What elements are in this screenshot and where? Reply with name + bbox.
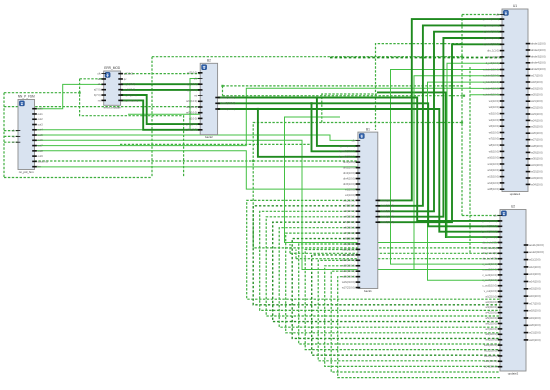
svg-text:w7(210:0): w7(210:0) (485, 327, 497, 331)
svg-text:w9(210:0): w9(210:0) (343, 242, 355, 246)
svg-text:w14(10:0): w14(10:0) (487, 181, 499, 185)
wire bus B1.hole3 to U1 (378, 32, 502, 212)
svg-text:back1: back1 (364, 289, 372, 293)
svg-text:w32(10:0): w32(10:0) (531, 170, 543, 174)
svg-text:len: len (38, 165, 42, 169)
svg-text:w16(210:0): w16(210:0) (342, 280, 355, 284)
wire dotted vertical x=222.5 (222, 86, 224, 96)
wire bold dashed net to U1 din_2 (330, 57, 502, 59)
wire staircase net 1 B1 to U2 (247, 200, 500, 299)
svg-text:a_hole5(10:0): a_hole5(10:0) (483, 42, 499, 46)
wire staircase net 6 B1 to U2 (279, 228, 500, 328)
svg-text:w28(10:0): w28(10:0) (487, 187, 499, 191)
module NN_P_FSM (A) (12, 95, 48, 174)
svg-text:hole1(10:0): hole1(10:0) (381, 198, 394, 202)
svg-text:w20(10:0): w20(10:0) (531, 93, 543, 97)
svg-text:ref2(10:0): ref2(10:0) (186, 105, 197, 109)
svg-text:w12(210:0): w12(210:0) (342, 258, 355, 262)
U2 left pin labels (481, 213, 498, 368)
svg-text:x(10:0): x(10:0) (189, 116, 197, 120)
svg-text:w19(10:0): w19(10:0) (529, 316, 541, 320)
svg-text:w5(10:0): w5(10:0) (489, 124, 499, 128)
svg-text:out6: out6 (38, 138, 44, 142)
svg-text:w2(210:0): w2(210:0) (343, 204, 355, 208)
wire bus B1.hole5 to U1 (378, 44, 502, 222)
svg-text:w27(10:0): w27(10:0) (531, 138, 543, 142)
U2 left pins (498, 215, 503, 367)
svg-text:w13(10:0): w13(10:0) (529, 272, 541, 276)
svg-text:w9(210:0): w9(210:0) (485, 338, 497, 342)
svg-text:w13(210:0): w13(210:0) (484, 359, 497, 363)
svg-text:w3(210:0): w3(210:0) (343, 209, 355, 213)
svg-text:w29(10:0): w29(10:0) (531, 150, 543, 154)
EM left pins (101, 73, 106, 101)
svg-text:w5(210:0): w5(210:0) (343, 220, 355, 224)
svg-text:B2: B2 (207, 59, 211, 63)
svg-text:d_out1(210:0): d_out1(210:0) (481, 219, 497, 223)
B2 left pins (198, 72, 203, 131)
svg-text:w12(210:0): w12(210:0) (484, 354, 497, 358)
wire staircase net 13 B1 to U2 (325, 266, 500, 367)
A left pin labels (12, 129, 16, 145)
wire dotted net into U2 din_hole2 (296, 250, 500, 259)
U2 right pin labels (529, 243, 544, 342)
svg-text:w14(210:0): w14(210:0) (342, 269, 355, 273)
svg-text:w30(10:0): w30(10:0) (531, 157, 543, 161)
wire bus B2.dout1 branch to B1 (317, 98, 358, 146)
svg-text:w17(10:0): w17(10:0) (531, 74, 543, 78)
svg-text:hole4(10:0): hole4(10:0) (381, 215, 394, 219)
wire staircase net 9 B1 to U2 (299, 244, 500, 344)
wire dotted net y=95.7 (223, 95, 465, 97)
module B2 (B2) (184, 59, 236, 140)
wire bus 4th feed to U2 (377, 92, 500, 237)
wire dotted vertical x=470 (469, 67, 471, 253)
U2 right pins (524, 244, 529, 341)
wire clk net long horizontal y=56.7 (152, 56, 462, 58)
svg-text:din_hole3(9): din_hole3(9) (482, 246, 497, 250)
U1 left pins (500, 14, 505, 190)
wire net riser to U2 din_hole1 (285, 117, 501, 243)
svg-text:d_out3(210:0): d_out3(210:0) (481, 230, 497, 234)
svg-text:out4: out4 (38, 128, 44, 132)
svg-text:c_out2(10:0): c_out2(10:0) (482, 267, 497, 271)
wire clk net branch to ERR_MOD (4, 79, 184, 178)
wire net U1 to U2 link 4 (428, 82, 503, 280)
svg-text:w1(10:0): w1(10:0) (489, 99, 499, 103)
svg-text:w25(10:0): w25(10:0) (531, 125, 543, 129)
svg-text:w11(10:0): w11(10:0) (488, 162, 499, 166)
svg-text:w7(10:0): w7(10:0) (489, 137, 499, 141)
svg-text:w4(10:0): w4(10:0) (489, 118, 499, 122)
A left pins (16, 130, 21, 142)
svg-text:update2: update2 (508, 371, 519, 375)
svg-text:st_1(10:0): st_1(10:0) (185, 82, 197, 86)
svg-text:w11(210:0): w11(210:0) (342, 253, 355, 257)
wire staircase net 10 B1 to U2 (305, 250, 500, 350)
module U1 (U1) (481, 4, 545, 196)
wire staircase net 12 B1 to U2 (318, 260, 500, 360)
svg-text:ref3(10:0): ref3(10:0) (186, 111, 197, 115)
svg-text:w20(10:0): w20(10:0) (529, 323, 541, 327)
svg-text:w4(210:0): w4(210:0) (343, 215, 355, 219)
svg-text:e(210:0): e(210:0) (187, 71, 197, 75)
B2 right pins (215, 97, 220, 110)
wire net U1 to U2 link 2 (391, 70, 503, 265)
wire bus B2.dout3 branch to B1 (258, 109, 358, 157)
svg-text:B1: B1 (366, 127, 370, 131)
junction dots (79, 92, 81, 94)
svg-text:w3(210:0): w3(210:0) (485, 305, 497, 309)
svg-text:w34(10:0): w34(10:0) (531, 182, 543, 186)
svg-text:aout2(210:0): aout2(210:0) (529, 250, 544, 254)
svg-text:din_1(1:0): din_1(1:0) (487, 49, 499, 53)
svg-text:w13(210:0): w13(210:0) (342, 264, 355, 268)
svg-text:hole5(10:0): hole5(10:0) (381, 220, 394, 224)
B1 left pin labels (339, 138, 356, 289)
svg-text:a_hole1(210:0): a_hole1(210:0) (481, 17, 499, 21)
svg-text:c_out1(10:0): c_out1(10:0) (482, 262, 497, 266)
wire bus ERR_MOD.st_nnn to B2 (121, 100, 201, 129)
svg-text:din2(10:0): din2(10:0) (343, 166, 355, 170)
wire dotted net A lower to B1 (35, 160, 358, 162)
svg-text:w31(10:0): w31(10:0) (531, 163, 543, 167)
wire net A.out9 to B1 (35, 151, 358, 189)
svg-text:din1(10:0): din1(10:0) (343, 160, 355, 164)
module ERR_MOD (EM) (94, 66, 139, 110)
svg-text:dout(7:0): dout(7:0) (38, 159, 49, 163)
svg-text:w23(10:0): w23(10:0) (531, 112, 543, 116)
svg-text:din_2(1:0): din_2(1:0) (487, 55, 499, 59)
svg-text:w16(10:0): w16(10:0) (529, 294, 541, 298)
wire staircase net 8 B1 to U2 (292, 239, 500, 339)
wire bus B2.dout2 branch to B1 (312, 103, 358, 151)
svg-text:c_out5(10:0): c_out5(10:0) (482, 284, 497, 288)
B2 right pin labels (221, 95, 236, 111)
wire net U1 to U2 link 3 (414, 76, 502, 270)
svg-text:w33(10:0): w33(10:0) (531, 176, 543, 180)
wire clk net riser to U1 (462, 14, 502, 16)
svg-text:q(210:0): q(210:0) (124, 72, 134, 76)
svg-text:U1: U1 (513, 4, 517, 8)
svg-text:st_1(10:0): st_1(10:0) (124, 82, 136, 86)
module U2 (U2) (481, 205, 544, 376)
svg-text:din4(10:0): din4(10:0) (343, 176, 355, 180)
wire dotted net into U2 din_hole1 (290, 244, 500, 253)
svg-text:dout1(210:0): dout1(210:0) (221, 95, 236, 99)
wire dotted net y=43.6 and vertical left of B1 (376, 44, 463, 130)
svg-text:w15(10:0): w15(10:0) (529, 287, 541, 291)
svg-text:w8(210:0): w8(210:0) (485, 332, 497, 336)
svg-text:ahole1(10:0): ahole1(10:0) (531, 42, 546, 46)
wire net A.out6 to U2 (35, 140, 501, 269)
wire net A.out11 to B1 (35, 166, 358, 168)
svg-text:w2(10:0): w2(10:0) (489, 105, 499, 109)
B2 left pin labels (184, 71, 198, 132)
svg-text:ahole4(10:0): ahole4(10:0) (531, 61, 546, 65)
svg-text:b(7:0): b(7:0) (94, 93, 101, 97)
svg-text:hole3(10:0): hole3(10:0) (381, 209, 394, 213)
wire clk net left vertical x=4 (3, 93, 5, 178)
svg-text:w1(210:0): w1(210:0) (343, 198, 355, 202)
svg-text:w19(10:0): w19(10:0) (531, 86, 543, 90)
svg-text:c_out4(10:0): c_out4(10:0) (482, 278, 497, 282)
wire bus B1.hole2 to U1 (378, 25, 502, 205)
svg-text:d_out3(210:0): d_out3(210:0) (339, 155, 355, 159)
svg-text:rst: rst (194, 94, 197, 98)
svg-text:w11(210:0): w11(210:0) (484, 348, 497, 352)
svg-text:s_hole3(10:0): s_hole3(10:0) (483, 80, 499, 84)
wire net EM area to B2 pin8 (128, 113, 200, 115)
wire dotted net y=144.4 (120, 143, 311, 145)
svg-text:din_hole2(9): din_hole2(9) (482, 240, 497, 244)
svg-text:w8(210:0): w8(210:0) (343, 236, 355, 240)
svg-text:w22(10:0): w22(10:0) (529, 338, 541, 342)
svg-text:aout1(210:0): aout1(210:0) (529, 243, 544, 247)
svg-text:w22(10:0): w22(10:0) (531, 106, 543, 110)
wire staircase net 15 B1 to U2 (338, 277, 500, 378)
svg-text:w26(10:0): w26(10:0) (531, 131, 543, 135)
svg-text:w18(10:0): w18(10:0) (529, 309, 541, 313)
svg-text:a_hole4(10:0): a_hole4(10:0) (483, 36, 499, 40)
wire staircase net 11 B1 to U2 (312, 255, 500, 355)
svg-text:out9: out9 (38, 154, 44, 158)
svg-text:out1: out1 (38, 112, 44, 116)
svg-text:out7: out7 (38, 143, 44, 147)
svg-text:dout3(210:0): dout3(210:0) (221, 107, 236, 111)
svg-text:NN_P_FSM: NN_P_FSM (18, 95, 35, 99)
svg-text:ref1(10:0): ref1(10:0) (186, 99, 197, 103)
B1 left pins (356, 140, 361, 288)
wire dotted branch y=106.6 to B2 (4, 106, 200, 108)
svg-text:out0: out0 (38, 107, 44, 111)
wire clk net vertical x=462 (461, 15, 463, 216)
svg-text:w11(10:0): w11(10:0) (529, 258, 540, 262)
svg-text:s_hole1(10:0): s_hole1(10:0) (483, 67, 499, 71)
svg-text:U2: U2 (511, 205, 515, 209)
wire staircase net 5 B1 to U2 (273, 222, 500, 321)
svg-text:w3(10:0): w3(10:0) (489, 112, 499, 116)
EM right pins (118, 73, 123, 101)
svg-text:st_flag(1:0): st_flag(1:0) (124, 93, 137, 97)
svg-text:s_hole2(10:0): s_hole2(10:0) (483, 74, 499, 78)
wire net A.out7 up to U1 (35, 88, 503, 145)
svg-text:v_out(10:0): v_out(10:0) (484, 289, 497, 293)
svg-text:w6(210:0): w6(210:0) (485, 321, 497, 325)
wire net A.out0 to ERR_MOD (35, 84, 104, 108)
svg-text:w6(210:0): w6(210:0) (343, 226, 355, 230)
svg-text:w6(10:0): w6(10:0) (489, 130, 499, 134)
svg-text:w14(10:0): w14(10:0) (529, 279, 541, 283)
svg-text:w7(210:0): w7(210:0) (343, 231, 355, 235)
svg-text:d_in3(10:0): d_in3(10:0) (486, 61, 499, 65)
wire dotted net q from ERR_MOD to B2 (121, 73, 201, 75)
U1 right pins (526, 43, 531, 185)
svg-text:back2: back2 (205, 135, 213, 139)
svg-text:w10(210:0): w10(210:0) (342, 247, 355, 251)
EM left pin labels (94, 72, 101, 103)
svg-text:w13(10:0): w13(10:0) (487, 175, 499, 179)
svg-text:out2: out2 (38, 117, 44, 121)
svg-text:ERR_MOD: ERR_MOD (104, 66, 121, 70)
svg-text:w17(10:0): w17(10:0) (529, 301, 541, 305)
wire staircase net 14 B1 to U2 (331, 271, 500, 372)
svg-text:update1: update1 (510, 192, 521, 196)
svg-text:rst: rst (98, 98, 101, 102)
svg-text:e2(10:0): e2(10:0) (345, 193, 355, 197)
svg-text:w17(210:0): w17(210:0) (342, 285, 355, 289)
svg-text:a(7:0): a(7:0) (94, 88, 101, 92)
svg-text:st_2(10:0): st_2(10:0) (185, 88, 197, 92)
svg-text:w28(10:0): w28(10:0) (531, 144, 543, 148)
wire bus ERR_MOD.st_1 to B2 (121, 83, 201, 85)
wire bus B1.hole1 to U1 (378, 19, 502, 200)
wire net A.out4 to B2 (35, 79, 201, 130)
svg-text:s_hole5(10:0): s_hole5(10:0) (483, 93, 499, 97)
svg-text:error_module: error_module (104, 106, 122, 110)
svg-text:st_2(10:0): st_2(10:0) (124, 88, 136, 92)
svg-text:din_hole5(9): din_hole5(9) (482, 257, 497, 261)
svg-text:e1(10:0): e1(10:0) (345, 187, 355, 191)
wire bus ERR_MOD.st_2 to B2 (121, 89, 201, 91)
svg-text:d_out2(210:0): d_out2(210:0) (481, 224, 497, 228)
svg-text:din_hole1(9): din_hole1(9) (482, 235, 497, 239)
svg-text:out5: out5 (38, 133, 44, 137)
svg-text:nn_pid_fsm: nn_pid_fsm (19, 170, 35, 174)
wire net U1 to U2 link 1 (447, 63, 502, 237)
svg-text:st_flag(1:0): st_flag(1:0) (184, 122, 197, 126)
svg-text:w18(10:0): w18(10:0) (531, 80, 543, 84)
svg-text:a_hole2(10:0): a_hole2(10:0) (483, 23, 499, 27)
EM right pin labels (124, 72, 139, 103)
U1 right pin labels (531, 42, 546, 187)
module B1 (B1) (339, 127, 395, 293)
A right pins (32, 108, 37, 168)
svg-text:ahole3(10:0): ahole3(10:0) (531, 54, 546, 58)
svg-text:w8(10:0): w8(10:0) (489, 143, 499, 147)
svg-text:din_hole4(9): din_hole4(9) (482, 251, 497, 255)
wire staircase net 3 B1 to U2 (260, 211, 500, 310)
wire clk net bottom horizontal y=177.5 (4, 177, 152, 179)
wire bus B1.hole4 to U1 (378, 38, 502, 217)
wire bus ERR_MOD.st_flag to B2 (121, 95, 201, 124)
svg-text:w14(210:0): w14(210:0) (484, 365, 497, 369)
svg-text:d_out2(210:0): d_out2(210:0) (339, 149, 355, 153)
svg-text:din5(10:0): din5(10:0) (343, 182, 355, 186)
svg-text:w21(10:0): w21(10:0) (531, 99, 543, 103)
wire bus B2.dout1 trunk to U2 (218, 98, 500, 221)
B1 right pin labels (381, 198, 394, 224)
wire clk net to U2 (462, 215, 500, 217)
wire staircase net 7 B1 to U2 (286, 233, 500, 333)
svg-text:st_nnn(10:0): st_nnn(10:0) (124, 98, 139, 102)
svg-text:rst: rst (12, 134, 15, 138)
B1 right pins (376, 200, 381, 223)
svg-text:w12(10:0): w12(10:0) (529, 265, 541, 269)
svg-text:w10(10:0): w10(10:0) (487, 156, 499, 160)
svg-text:ahole5(10:0): ahole5(10:0) (531, 67, 546, 71)
svg-text:w5(210:0): w5(210:0) (485, 316, 497, 320)
svg-text:w15(210:0): w15(210:0) (342, 275, 355, 279)
wire clk net vertical x=152 (151, 57, 153, 178)
svg-text:ahole2(10:0): ahole2(10:0) (531, 48, 546, 52)
svg-text:din3(10:0): din3(10:0) (343, 171, 355, 175)
svg-text:s_hole4(10:0): s_hole4(10:0) (483, 86, 499, 90)
wire dotted stub to U1 s_hole3 (470, 94, 502, 96)
svg-text:w2(210:0): w2(210:0) (485, 300, 497, 304)
U1 left pin labels (481, 12, 499, 191)
svg-text:dout2(210:0): dout2(210:0) (221, 101, 236, 105)
wire staircase net 4 B1 to U2 (266, 217, 500, 316)
svg-text:w10(210:0): w10(210:0) (484, 343, 497, 347)
svg-text:d_out1(210:0): d_out1(210:0) (339, 144, 355, 148)
svg-text:out3: out3 (38, 122, 44, 126)
wire net A.out5 to B1 clk (35, 135, 358, 140)
svg-text:w9(10:0): w9(10:0) (489, 149, 499, 153)
wire clk branch to NN_P_FSM pins (4, 131, 18, 143)
wire dotted net y=122.5 wrap to U2 (253, 123, 500, 248)
svg-text:pr_flag(1:0): pr_flag(1:0) (184, 128, 197, 132)
svg-text:a_hole3(10:0): a_hole3(10:0) (483, 30, 499, 34)
wire dotted net y=85.9 to U1 (223, 85, 465, 87)
svg-text:w4(210:0): w4(210:0) (485, 311, 497, 315)
wire bus B2.dout2 trunk to U2 (218, 103, 500, 226)
svg-text:hole2(10:0): hole2(10:0) (381, 204, 394, 208)
wire bus B2.dout3 trunk to U2 (218, 109, 500, 232)
wire dotted riser x=321.8 (322, 94, 377, 123)
svg-text:w24(10:0): w24(10:0) (531, 118, 543, 122)
svg-text:out8: out8 (38, 149, 44, 153)
svg-text:w21(10:0): w21(10:0) (529, 331, 541, 335)
A right pin labels (38, 107, 49, 169)
wire staircase net 2 B1 to U2 (253, 206, 500, 305)
svg-text:c_out3(10:0): c_out3(10:0) (482, 273, 497, 277)
svg-text:w1(210:0): w1(210:0) (485, 294, 497, 298)
svg-text:w12(10:0): w12(10:0) (487, 168, 499, 172)
